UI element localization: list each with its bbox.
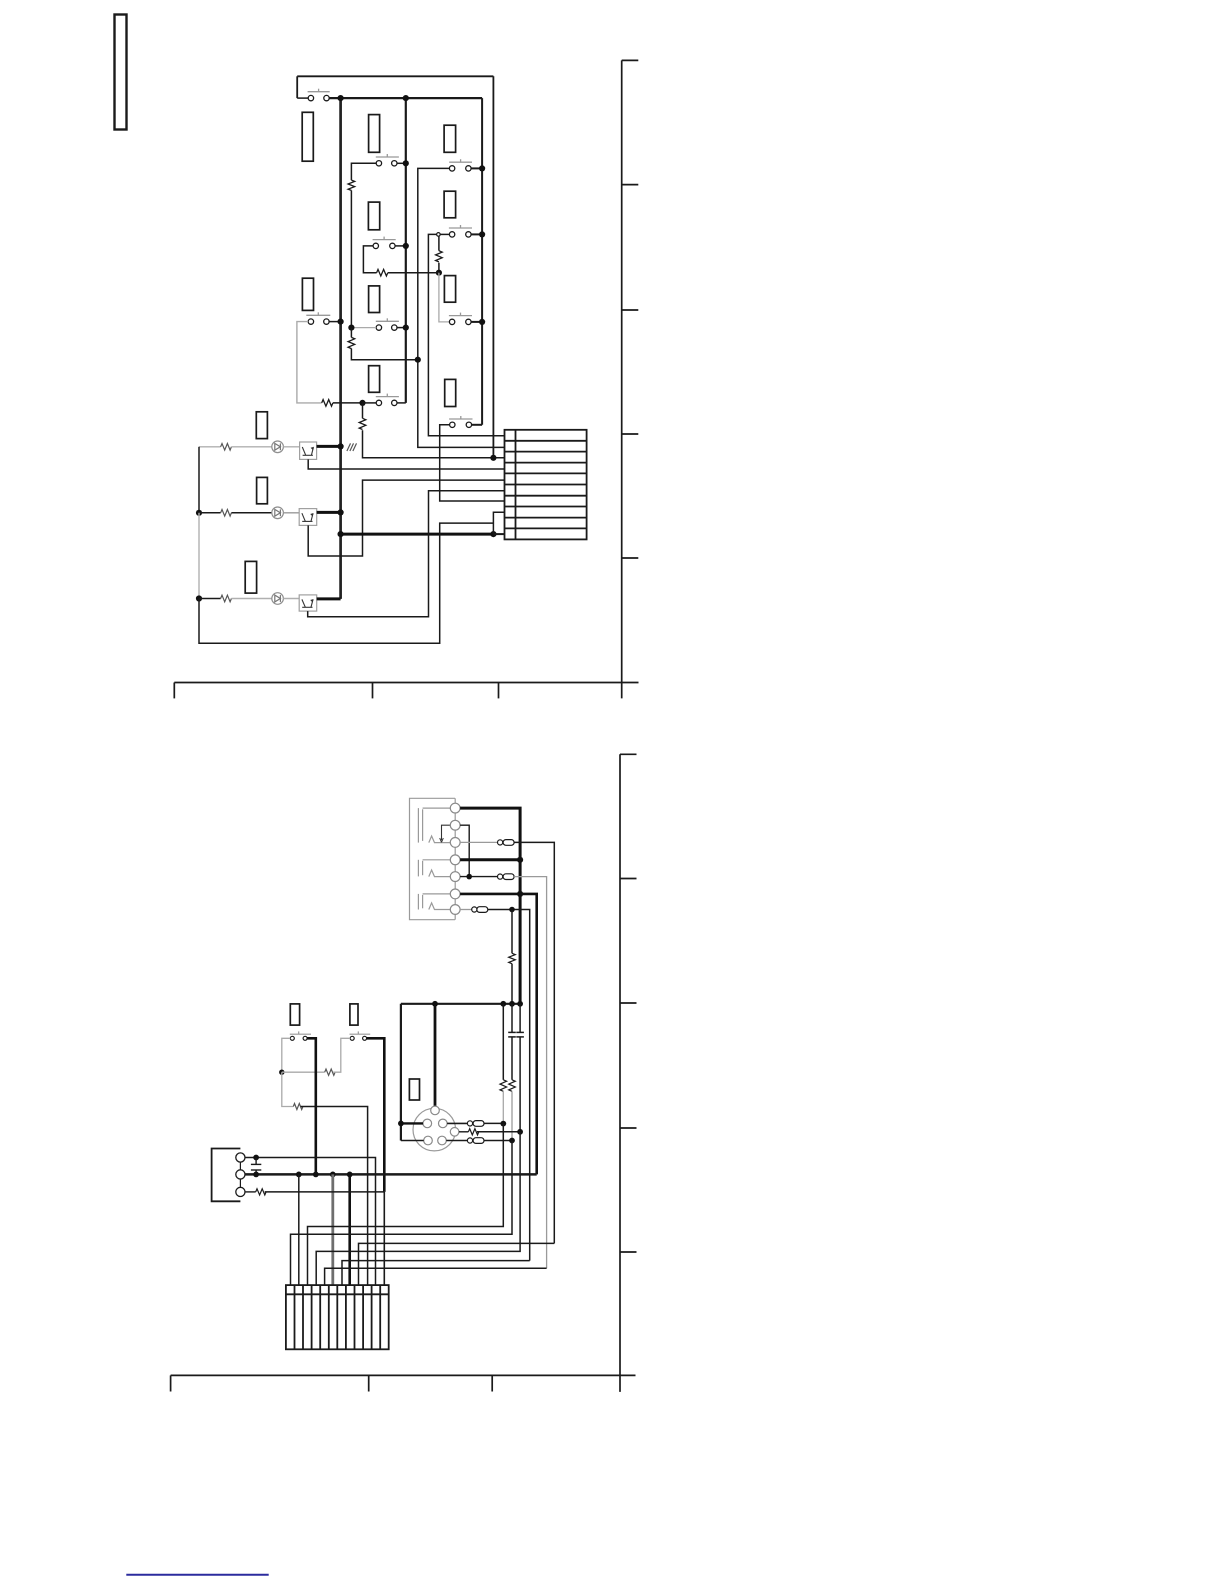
wire: R14 row to SW-B drop (265, 1191, 385, 1193)
resistor R1 (348, 180, 355, 190)
wire: box right leg down (502, 1004, 504, 1080)
node: pin5 bridge junction (466, 874, 472, 880)
resistor R16 (293, 1104, 303, 1110)
ground chassis hatch (347, 443, 357, 451)
wire: SW10 left drop to connector row7 (440, 425, 505, 501)
wire: SW-A left loop (gray) (282, 1038, 291, 1072)
transistor Q2 (299, 509, 317, 526)
wire: DIN upper-right pin to bead L4 (447, 1122, 467, 1124)
switch SW6 (306, 312, 330, 324)
resistor R2 (348, 337, 355, 348)
node: SW6 output junction (338, 319, 344, 325)
wire: R1 to SW7 junction (350, 190, 352, 327)
node: tap junction on SW3 drop (415, 357, 421, 363)
wire: CN2 pin2 ground row (medium) (245, 1173, 537, 1176)
wire: Q1 collector to bus (thick) (317, 445, 341, 448)
resistor R8 (221, 509, 232, 516)
frame bracket (top schematic) (622, 60, 639, 698)
wire: SW9 right up corner (end of mid bus) (397, 402, 406, 404)
DIN pin lower-left (424, 1136, 433, 1145)
wire: SW2 right to bus (397, 162, 406, 164)
jack J2 sleeve contacts (418, 860, 450, 877)
jack J1 sleeve contacts (418, 808, 450, 843)
wire: SW6 right to thick bus (329, 321, 341, 323)
DIN pin upper-left (423, 1119, 432, 1128)
switch SW1 (308, 89, 330, 101)
wire: CN2 pin1 row to connector c11 (245, 1158, 376, 1286)
resistor R12 (509, 1080, 516, 1092)
jack J1 switch arrow (440, 825, 451, 842)
wire: SW10 right to inner bus corner (472, 424, 483, 426)
wire: R5 to SW9 junction (333, 402, 363, 404)
node: Q2 collector junction (338, 509, 344, 515)
wire: LED chain vertical B-C (gray) (198, 513, 200, 599)
wire: SW-B drop to connector c12 (383, 1192, 385, 1285)
wire: bus into connector row10 (493, 533, 504, 535)
wire: R7 to LED D1 (gray) (231, 446, 271, 448)
wire: loop junction down to R16 (gray) (282, 1072, 294, 1106)
wire: L3 to pin7 node and corner down to row E (488, 910, 530, 1261)
wire: Q3 collector to bus end (thick) (317, 597, 341, 600)
node: R6 top junction (359, 400, 365, 406)
wire: L1 to corner and down to row C (514, 842, 554, 1243)
capacitor C1 (251, 1158, 261, 1175)
component outline (col1 row2) (368, 202, 379, 230)
node: SW2 output junction (403, 160, 409, 166)
LED D1 (272, 441, 284, 453)
wire: fan row B to connector c1 (291, 1141, 513, 1286)
switch SW-B (350, 1031, 371, 1040)
node: bus rail junction (517, 1001, 523, 1007)
component outline (SW-B label) (350, 1004, 358, 1025)
wire: L4 to column junction (484, 1122, 503, 1124)
wire: CN2 pin3 to R14 (245, 1191, 256, 1193)
wire: R11 to DIN row1 (gray tail) (502, 1091, 504, 1123)
wire: DIN top feed (thick) (434, 1004, 437, 1106)
wire: SW1 output to inner corner (329, 97, 482, 99)
CN2 pin 3 (236, 1187, 245, 1196)
resistor R7 (221, 444, 232, 451)
component outline (right col row3) (444, 276, 455, 303)
component outline (col1 row1) (369, 115, 380, 153)
jack pin 4 (450, 855, 460, 865)
node: tap open circle (437, 233, 441, 237)
wire: big box top rail (401, 1003, 520, 1005)
node: bus right junction (490, 531, 496, 537)
wire: SW1 left stub (297, 97, 308, 99)
wire: LED chain vertical A-B (198, 447, 200, 513)
wire: SW3 right to inner bus (471, 167, 482, 169)
wire: SW4 left loop to R3 (363, 246, 376, 273)
node: row C junction (196, 595, 202, 601)
jack J3 sleeve contacts (418, 894, 450, 910)
wire: pin3 to bead L1 (gray) (460, 841, 497, 843)
node: box corner junction (500, 1001, 506, 1007)
jack J3 tip contact (429, 903, 450, 910)
wire: box edge corner to DIN lower-left pin (401, 1140, 424, 1142)
wire: thick bottom bus to connector (341, 533, 494, 536)
node: SW7 left junction (348, 325, 354, 331)
jack assembly J1-J3 outline (410, 798, 456, 919)
wire: SW-B right drop (thick) (367, 1038, 385, 1192)
wire: pin4 to bus (thick) (460, 858, 520, 861)
resistor R9 (221, 595, 232, 602)
wire: SW-A right to connector feed (thick) (307, 1038, 316, 1174)
wire: LED D1 to Q1 (gray) (283, 446, 299, 448)
wire: R2 to mid vertical tap (351, 349, 417, 360)
inductor bead L3 (472, 907, 488, 913)
node: pin2 cap junction (253, 1172, 259, 1178)
component outline (right col row4) (445, 379, 456, 406)
switch SW-A (290, 1031, 311, 1040)
wire: L2 to corner and down to row F (gray) (514, 877, 547, 1269)
component outline (right col row1) (444, 125, 456, 152)
jack pin 6 (450, 889, 460, 899)
wire: DIN mid-right pin to R13 (459, 1131, 469, 1133)
wire: DIN lower-right pin to bead L5 (446, 1140, 467, 1142)
wire: ground drop to connector c2 (298, 1174, 300, 1285)
DIN pin top (431, 1106, 440, 1115)
node: R4 bottom junction (436, 270, 442, 276)
LED D2 (272, 507, 284, 519)
connector CN1 (top schematic) (505, 430, 587, 540)
jack pin 7 (450, 905, 460, 915)
component outline (left margin row2) (302, 278, 313, 310)
wire: R12 to DIN row3 (gray) (511, 1091, 513, 1140)
DIN pin lower-right (438, 1136, 447, 1145)
resistor R5 (322, 400, 333, 407)
wire: riser to connector row8 (493, 512, 504, 534)
node: junction top bus (338, 95, 344, 101)
node: DIN row3 junction (509, 1138, 515, 1144)
wire: mid column bus (405, 98, 407, 403)
jack pin 5 (450, 872, 460, 882)
wire: fan row A to connector c3 (308, 1124, 504, 1286)
wire: R10 to top rail (511, 964, 513, 1004)
switch SW5 (449, 225, 472, 237)
sidebar index bar (115, 15, 127, 130)
wire: loop junction to R15 (gray) (282, 1071, 325, 1073)
node: pin7 column junction (509, 907, 515, 913)
wire: LED D3 to Q3 (gray) (283, 598, 299, 600)
inductor bead L2 (498, 874, 515, 880)
node: Q1 collector junction (338, 443, 344, 449)
wire: SW6 left loop (gray) (297, 322, 322, 403)
DIN pin mid-right (450, 1128, 459, 1137)
capacitor C2 (508, 1004, 516, 1080)
component outline (right col row2) (444, 191, 456, 218)
wire: SW5 right to inner bus (471, 233, 482, 235)
node: DIN stub junction (432, 1001, 438, 1007)
component outline (SW-A label) (290, 1004, 299, 1025)
wire: fan row C to connector c9 (359, 1243, 555, 1285)
inductor bead L5 (467, 1138, 484, 1144)
wire: pin5 to bead L2 (460, 876, 497, 878)
wire: outer loop left edge (296, 76, 298, 98)
wire: ground drop to connector c6 (thick gray) (331, 1174, 334, 1285)
transistor Q1 (300, 442, 317, 459)
wire: SW3 left drop to connector row2 (418, 168, 505, 447)
wire: R3 to R4 junction (388, 272, 439, 274)
resistor R3 (377, 269, 388, 276)
wire: fan row E to connector c7 (342, 1261, 530, 1286)
resistor R15 (325, 1069, 335, 1075)
switch SW9 (376, 394, 399, 406)
wire: inner right vertical bus (481, 98, 483, 425)
wire: junction to SW9 (363, 402, 377, 404)
inductor bead L1 (498, 840, 515, 846)
node: ground tap SW-A (313, 1172, 319, 1178)
wire: R15 to SW-B left (gray) (333, 1038, 350, 1072)
node: box edge tap (398, 1121, 404, 1127)
wire: SW4 right to bus (395, 245, 406, 247)
CN2 pin 2 (236, 1170, 245, 1179)
wire: SW7 right to bus (397, 327, 406, 329)
CN2 pin 1 (236, 1153, 245, 1162)
wire: SW2 left loop to resistor (351, 163, 376, 180)
node: ground tap c8 (347, 1172, 353, 1178)
wire: outer loop top edge (297, 75, 493, 77)
wire: LED row A left corner (gray) (199, 446, 221, 448)
resistor R10 (509, 953, 516, 963)
wire: outer loop right edge (492, 76, 494, 458)
wire: Q2 collector to bus (thick) (317, 511, 341, 514)
resistor R13 (468, 1129, 478, 1135)
wire: LED D2 to Q2 (283, 512, 299, 514)
wire: junction down to SW8 (gray link) (439, 273, 450, 322)
wire: L5 to column junction (484, 1140, 512, 1142)
wire: row B to R8 (199, 512, 221, 514)
wire: R16 to connector c10 (301, 1107, 368, 1286)
wire: pin7 node down to R10 (511, 910, 513, 954)
wire: pin6 to bus and corner (thick) (460, 894, 537, 1175)
wire: box edge to DIN upper-left pin (401, 1122, 423, 1124)
resistor R11 (500, 1080, 507, 1092)
wire: LED chain bottom return (199, 523, 493, 643)
node: SW loop junction (279, 1070, 284, 1075)
wire: R6 branch down (362, 403, 364, 418)
switch SW10 (449, 416, 472, 427)
node: pin4 bus junction (517, 857, 523, 863)
wire: R6 to connector row3 (363, 430, 505, 458)
capacitor C3 (516, 1004, 524, 1132)
jack pin 1 (450, 803, 460, 813)
wire: row C to R9 (199, 598, 221, 600)
switch SW7 (376, 318, 399, 330)
resistor R14 (256, 1189, 266, 1195)
node: junction top mid (403, 95, 409, 101)
wire: pin1 to bus corner (thick) (460, 808, 520, 1004)
node: SW7 output junction (403, 325, 409, 331)
node: SW8 output junction (479, 319, 485, 325)
wire: thick center bus (339, 98, 342, 599)
node: ground tap c2 (296, 1172, 302, 1178)
switch SW8 (449, 313, 472, 325)
node: SW5 output junction (479, 231, 485, 237)
resistor R6 (359, 418, 366, 429)
node: R10 rail junction (509, 1001, 515, 1007)
wire: SW8 right to inner bus (471, 321, 482, 323)
wire: R1 chain to corner into row of SW7 then R2 (350, 328, 352, 338)
node: pin1 cap junction (253, 1155, 259, 1161)
jack pin 2 (450, 820, 460, 830)
wire: R9 to LED D3 (gray) (231, 598, 271, 600)
node: DIN row1 junction (500, 1121, 506, 1127)
switch SW2 (376, 154, 399, 166)
LED D3 (272, 593, 284, 605)
inductor bead L4 (467, 1121, 484, 1127)
CN2 pin link 2-3 (239, 1179, 241, 1187)
component outline (inside box) (409, 1079, 419, 1100)
wire: pin2 bridge to pin5 drop (460, 825, 469, 876)
node: SW4 output junction (403, 243, 409, 249)
component outline (left margin tall) (302, 112, 313, 161)
DIN connector body (413, 1108, 456, 1151)
wire: fan row F to connector c5 (325, 1268, 547, 1285)
component outline (LED row C) (245, 561, 256, 593)
resistor R4 (436, 251, 443, 262)
wire: tap to connector row1 (428, 234, 504, 435)
wire: R8 to LED D2 (231, 512, 271, 514)
scale ruler (top schematic) (174, 683, 638, 699)
DIN pin upper-right (439, 1119, 448, 1128)
wire: SW5 left to tap circle (440, 233, 449, 235)
node: row B junction (196, 510, 202, 516)
wire: Q3 emitter to connector row6 (308, 491, 505, 617)
wire: pin7 to bead L3 (gray) (460, 909, 472, 911)
wire: Q2 emitter path to connector row5 (308, 480, 504, 556)
wire: R4 to junction (438, 263, 440, 273)
blue underline mark (page footer) (126, 1574, 268, 1576)
wire: R13 to bus junction (477, 1131, 520, 1133)
component outline (LED row B) (257, 477, 268, 503)
wire: big box left edge (400, 1004, 402, 1141)
wire: Q1 emitter to connector row4 (308, 459, 504, 469)
connector CN3 (bottom, 12 way) (286, 1285, 389, 1349)
wire: ground drop to connector c8 (thick) (348, 1174, 351, 1285)
wire: SW7 left stub (351, 327, 376, 329)
frame bracket (bottom schematic) (620, 754, 637, 1392)
component outline (col1 row3) (369, 286, 380, 313)
wire: tap circle down to R4 (438, 236, 440, 251)
node: bus bottom junction (338, 531, 344, 537)
connector CN2 (3-pin) (212, 1149, 241, 1202)
transistor Q3 (299, 595, 317, 611)
switch SW3 (449, 159, 472, 171)
scale ruler (bottom schematic) (171, 1375, 636, 1391)
jack pin 3 (450, 838, 460, 848)
node: DIN row2 junction (517, 1129, 523, 1135)
node: row3 joins outer loop (490, 455, 496, 461)
CN2 pin link 1-2 (239, 1162, 241, 1170)
node: ground tap c6 (330, 1172, 336, 1178)
jack J2 tip contact (429, 870, 450, 877)
node: pin6 bus junction (517, 891, 523, 897)
jack J1 tip contact (429, 836, 450, 843)
component outline (LED row A) (256, 412, 267, 439)
wire: fan row D to connector c4 (316, 1132, 520, 1285)
node: SW3 output junction (479, 165, 485, 171)
switch SW4 (373, 237, 396, 249)
component outline (col1 row4) (369, 366, 380, 393)
